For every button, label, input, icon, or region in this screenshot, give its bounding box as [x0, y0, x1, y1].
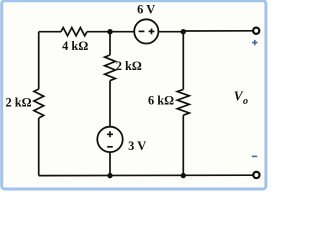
node B junction dot (top of right branch)	[181, 29, 186, 34]
wire: middle branch segment from 3V source to bottom wire	[109, 152, 111, 176]
node C junction dot (bottom of middle branch)	[107, 173, 112, 178]
positive output terminal (open circle)	[253, 28, 259, 34]
negative output terminal (open circle)	[253, 172, 259, 178]
6V source minus terminal mark	[139, 30, 145, 32]
wire: top segment from node B to positive output terminal	[183, 30, 252, 32]
output minus polarity sign	[252, 155, 257, 157]
3V source plus terminal mark	[107, 131, 113, 137]
resistor 6 kOhm (right vertical)	[177, 89, 189, 115]
3V source minus terminal mark	[107, 146, 113, 148]
resistor 4 kOhm (horizontal, top)	[61, 28, 87, 36]
wire: top segment from 4k resistor to node A	[87, 31, 110, 33]
svg-text:6 V: 6 V	[137, 3, 155, 17]
wire: top segment from 6V source to node B	[158, 31, 183, 33]
wire: middle branch upper vertical segment	[109, 32, 111, 55]
wire: middle branch segment from 2k resistor to 3V source	[109, 81, 111, 127]
node D junction dot (bottom of right branch)	[181, 173, 186, 178]
voltage source 6 V (circle with - +)	[134, 19, 158, 43]
resistor 2 kOhm (middle vertical)	[105, 55, 116, 81]
voltage source 3 V (circle with + over -)	[97, 127, 122, 152]
svg-text:3 V: 3 V	[128, 139, 146, 153]
output plus polarity sign	[252, 40, 257, 45]
wire: right branch lower vertical segment	[182, 115, 184, 175]
wire: bottom horizontal segment	[39, 174, 253, 176]
svg-text:2 kΩ: 2 kΩ	[116, 59, 142, 73]
resistor 2 kOhm (left vertical)	[34, 89, 44, 118]
wire: left branch lower vertical segment	[38, 118, 40, 176]
wire: right branch upper vertical segment	[182, 32, 184, 90]
svg-text:2 kΩ: 2 kΩ	[5, 96, 31, 110]
wire: top-left horizontal segment from left branch to 4k resistor	[39, 31, 61, 33]
6V source plus terminal mark	[149, 29, 155, 35]
svg-text:6 kΩ: 6 kΩ	[148, 94, 174, 108]
wire: left branch upper vertical segment	[38, 32, 40, 89]
node A junction dot (top of middle branch)	[107, 29, 112, 34]
svg-text:4 kΩ: 4 kΩ	[62, 39, 88, 53]
wire: top segment from node A to 6V source	[110, 31, 134, 33]
